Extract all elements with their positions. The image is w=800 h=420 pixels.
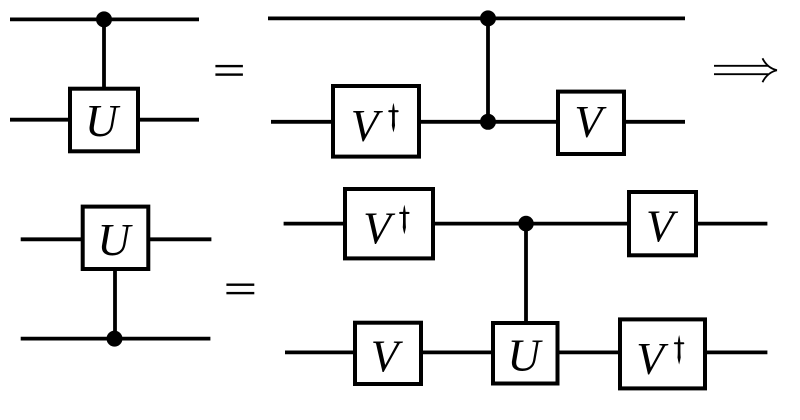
gate box U (bottom-right circuit, bottom wire) [493,323,558,384]
equals sign bottom row [226,284,254,295]
gate box U (bottom-left circuit) [83,207,149,269]
wire top of bottom-right circuit [284,222,768,226]
control dot bottom middle circuit [480,114,496,130]
wire top of left controlled-U circuit [10,17,199,21]
gate box V (middle circuit) [558,92,624,154]
gate box V-dagger (bottom-right circuit, bottom wire) [620,319,705,388]
gate box V (bottom-right circuit, bottom wire) [355,323,421,384]
gate box V (bottom-right circuit, top wire) [629,192,696,255]
dagger superscript (bottom-right circuit top V-dagger) [399,205,409,235]
control dot bottom-left circuit [107,331,123,347]
wire bottom of left controlled-U circuit [10,118,199,122]
control dot bottom-right circuit [518,216,534,232]
wire bottom of middle circuit [271,120,685,124]
wire vertical control link left circuit [102,19,106,90]
wire bottom of bottom-left circuit [21,337,211,341]
wire top of middle circuit [268,16,685,20]
wire vertical control link middle circuit [486,18,490,121]
svg-text:U: U [85,95,121,146]
wire top of bottom-left circuit [21,237,212,241]
wire vertical control link bottom-right circuit [524,224,528,353]
svg-text:U: U [507,329,543,380]
control dot top middle circuit [480,10,496,26]
gate box V-dagger (middle circuit) [333,86,419,157]
dagger superscript (bottom-right circuit bottom V-dagger) [674,335,684,365]
svg-text:U: U [97,214,133,265]
gate box V-dagger (bottom-right circuit, top wire) [345,189,433,258]
control dot left circuit [96,11,112,27]
wire bottom of bottom-right circuit [285,350,767,354]
gate box U (top-left circuit) [70,89,138,152]
long double arrow [714,58,777,82]
equals sign top row [215,65,243,76]
dagger superscript (middle circuit V-dagger) [388,103,398,132]
wire vertical control link bottom-left circuit [113,268,117,339]
